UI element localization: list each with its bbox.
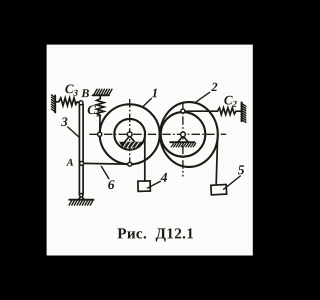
svg-text:A: A	[66, 158, 74, 169]
svg-text:1: 1	[152, 85, 159, 100]
svg-text:4: 4	[160, 170, 168, 185]
svg-text:3: 3	[60, 114, 68, 129]
svg-text:6: 6	[108, 177, 115, 192]
svg-text:5: 5	[238, 162, 245, 177]
svg-text:Рис. Д12.1: Рис. Д12.1	[117, 225, 194, 242]
svg-text:B: B	[80, 86, 89, 100]
svg-text:2: 2	[210, 80, 217, 94]
